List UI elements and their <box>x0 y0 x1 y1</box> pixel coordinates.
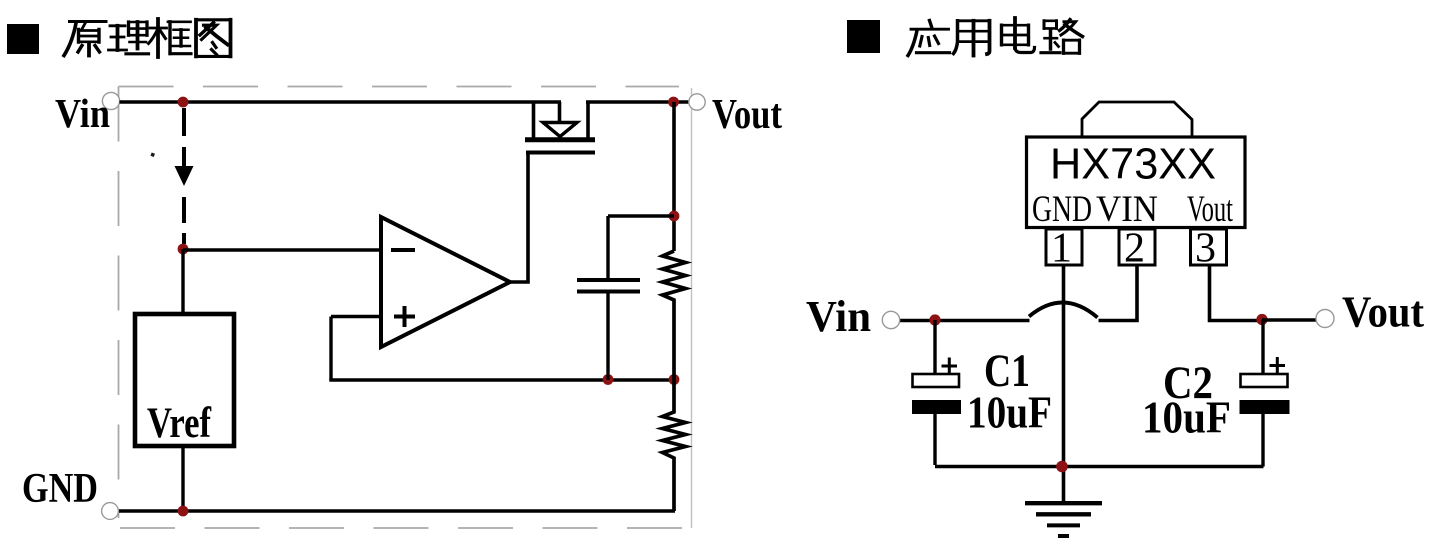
char 应 <box>930 21 932 27</box>
svg-text:Vin: Vin <box>806 292 871 341</box>
char 图 <box>196 20 231 57</box>
resistor R2 <box>663 380 686 511</box>
capacitor C2 lead bottom <box>1261 414 1264 467</box>
svg-text:GND: GND <box>22 466 98 512</box>
capacitor C2 top plate <box>1241 374 1288 387</box>
wire non-inverting input <box>331 315 381 318</box>
svg-text:Vout: Vout <box>1187 189 1233 230</box>
wire Vref bottom lead <box>181 446 184 511</box>
capacitor C2 lead top <box>1261 320 1264 374</box>
capacitor C2 polarity plus <box>1270 357 1286 374</box>
op-amp U1 <box>381 217 510 347</box>
svg-text:3: 3 <box>1195 226 1216 272</box>
svg-text:VIN: VIN <box>1096 189 1158 230</box>
transistor Q1 (PMOS pass element) <box>525 102 595 153</box>
node Vin junction <box>178 97 189 108</box>
IC mounting tab <box>1082 102 1192 137</box>
node C1 junction <box>929 314 940 325</box>
ground symbol <box>1025 503 1102 536</box>
IC U2 body HX73XX <box>1027 137 1246 228</box>
wire bottom ground rail <box>935 465 1264 469</box>
PMOS bulk arrow stem <box>558 102 562 122</box>
dashed current arrow <box>175 108 194 244</box>
op-amp minus sign <box>391 248 415 252</box>
pin 1 box <box>1046 229 1082 265</box>
svg-text:Vout: Vout <box>712 92 782 138</box>
char 路 <box>1044 21 1057 29</box>
char 用 <box>958 19 990 22</box>
wire top-right (PMOS drain to Vout) <box>586 100 689 103</box>
capacitor C lead top <box>606 216 609 278</box>
node feedback tap junction <box>178 244 189 255</box>
PMOS source lead <box>532 102 536 138</box>
op-amp plus sign <box>394 306 415 327</box>
svg-text:GND: GND <box>1032 189 1092 230</box>
svg-text:10uF: 10uF <box>967 388 1052 438</box>
resistor R1 <box>663 251 686 380</box>
wire feedback vertical <box>329 317 332 381</box>
svg-text:HX73XX: HX73XX <box>1050 140 1216 189</box>
PMOS drain lead <box>586 102 590 138</box>
capacitor C plates <box>577 280 640 292</box>
terminal GND <box>102 503 119 520</box>
node Vout junction <box>668 97 679 108</box>
capacitor C1 lead bottom <box>933 414 936 465</box>
char 电 <box>1013 18 1017 48</box>
wire pin2 VIN lead <box>1099 265 1138 321</box>
node ground rail junction <box>1056 461 1068 473</box>
PMOS gate bar <box>526 151 595 155</box>
capacitor C1 bottom plate <box>912 400 961 414</box>
wire pin3 Vout lead <box>1210 265 1263 321</box>
capacitor C1 polarity plus <box>942 358 958 375</box>
dashed block-diagram border bottom <box>120 527 692 529</box>
block-diagram border right <box>691 88 693 528</box>
capacitor C lead bottom <box>606 294 609 381</box>
node capacitor bottom junction <box>603 374 614 385</box>
terminal Vin (right) <box>882 311 899 328</box>
title block square (right) <box>847 20 880 53</box>
wire capacitor top <box>608 214 674 217</box>
PMOS channel bar <box>525 137 595 142</box>
pin 3 box <box>1191 229 1227 265</box>
title text 原理框图 <box>64 19 231 57</box>
wire op-amp output to gate <box>508 154 528 282</box>
wire pin1 GND lead <box>1062 265 1066 503</box>
terminal Vout (right) <box>1316 310 1334 328</box>
capacitor C1 lead top <box>933 320 936 374</box>
svg-text:Vout: Vout <box>1342 288 1424 337</box>
svg-text:10uF: 10uF <box>1142 393 1231 443</box>
PMOS arrow head <box>543 123 577 137</box>
svg-text:1: 1 <box>1051 226 1072 272</box>
terminal Vout <box>689 94 705 110</box>
terminal Vin <box>102 92 119 109</box>
capacitor C2 bottom plate <box>1240 400 1290 414</box>
wire Vin input <box>900 319 1030 322</box>
wire top-left (Vin to PMOS source) <box>120 100 562 103</box>
dashed block-diagram border top <box>119 86 680 88</box>
char 理 <box>109 26 127 50</box>
node C2 junction <box>1256 314 1267 325</box>
node compensation junction <box>669 211 680 222</box>
wire Vout vertical <box>672 102 676 251</box>
dashed block-diagram border left <box>118 87 120 519</box>
capacitor C1 top plate <box>913 374 960 387</box>
svg-text:2: 2 <box>1124 226 1145 272</box>
wire ground rail <box>119 509 676 512</box>
block Vref <box>135 314 234 446</box>
char 原 <box>70 20 107 23</box>
wire feedback horizontal <box>329 378 676 381</box>
svg-text:Vref: Vref <box>147 400 212 447</box>
node divider junction <box>669 374 680 385</box>
char 框 <box>150 27 167 30</box>
node ground junction <box>178 506 189 517</box>
wire inverting input <box>183 248 381 251</box>
svg-text:Vin: Vin <box>55 90 110 136</box>
wire crossover arc <box>1029 302 1098 317</box>
stray dot <box>150 153 154 157</box>
wire Vref top lead <box>181 249 184 314</box>
wire Vout output <box>1262 318 1316 321</box>
title text 应用电路 <box>908 18 1083 56</box>
pin 2 box <box>1119 229 1155 265</box>
title block square (left) <box>7 24 39 54</box>
